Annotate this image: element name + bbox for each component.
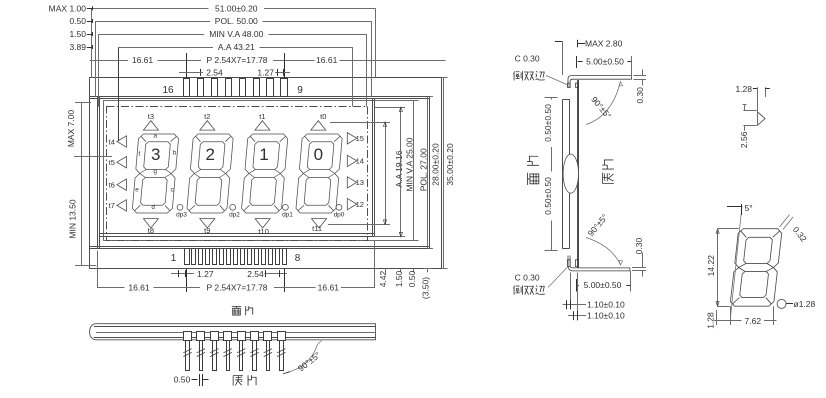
svg-text:e: e bbox=[135, 187, 139, 194]
svg-text:dp2: dp2 bbox=[229, 212, 240, 219]
svg-text:P 2.54X7=17.78: P 2.54X7=17.78 bbox=[206, 55, 267, 65]
svg-text:9: 9 bbox=[297, 85, 303, 96]
svg-text:MAX 7.00: MAX 7.00 bbox=[66, 110, 76, 148]
svg-text:t0: t0 bbox=[320, 112, 326, 121]
svg-text:15: 15 bbox=[356, 134, 364, 143]
annunciator triangle t12 bbox=[347, 198, 356, 209]
svg-text:4.42: 4.42 bbox=[378, 270, 388, 287]
svg-text:16.61: 16.61 bbox=[318, 283, 340, 293]
pin bend angle 90°±5° bottom bbox=[586, 238, 621, 266]
dimension 1.27 and 2.54 bottom bbox=[171, 273, 194, 275]
svg-text:1.10±0.10: 1.10±0.10 bbox=[587, 311, 625, 321]
dimension 1.10±0.10 upper bbox=[570, 273, 572, 310]
svg-text:t5: t5 bbox=[109, 158, 115, 167]
svg-text:t4: t4 bbox=[109, 137, 115, 146]
annunciator triangle t11 bbox=[312, 219, 327, 228]
svg-text:7.62: 7.62 bbox=[745, 316, 762, 326]
annunciator triangle t15 bbox=[347, 133, 356, 144]
pin bend angle 90°±5° top bbox=[586, 82, 621, 125]
dimension MIN V.A 25.00 bbox=[375, 107, 405, 109]
svg-text:1: 1 bbox=[171, 253, 177, 264]
svg-text:16.61: 16.61 bbox=[128, 283, 150, 293]
svg-text:(3.50): (3.50) bbox=[421, 277, 431, 299]
annunciator triangle t1 bbox=[255, 121, 270, 130]
annunciator triangle t13 bbox=[347, 177, 356, 188]
svg-text:12: 12 bbox=[356, 200, 364, 209]
polarizer outline POL 50.00 bbox=[104, 101, 414, 241]
dimension POL. 27.00 bbox=[414, 100, 419, 102]
front glass label 面片 bbox=[232, 307, 241, 316]
svg-text:16.61: 16.61 bbox=[316, 55, 338, 65]
svg-text:28.00±0.20: 28.00±0.20 bbox=[431, 143, 441, 186]
chamfer leader top bbox=[546, 76, 567, 85]
svg-text:POL. 50.00: POL. 50.00 bbox=[215, 16, 258, 26]
bent pins side view bbox=[184, 332, 192, 341]
svg-text:14: 14 bbox=[356, 157, 364, 166]
dimension A.A 43.21 bbox=[118, 47, 120, 141]
svg-text:1.27: 1.27 bbox=[197, 269, 214, 279]
svg-text:C 0.30: C 0.30 bbox=[515, 273, 540, 283]
svg-text:16.61: 16.61 bbox=[132, 55, 154, 65]
svg-text:5°: 5° bbox=[745, 203, 753, 213]
decimal point dp1 bbox=[283, 204, 289, 210]
annunciator triangle t0 bbox=[311, 121, 326, 130]
svg-text:MIN 13.50: MIN 13.50 bbox=[67, 199, 77, 238]
annunciator triangle t4 bbox=[117, 136, 127, 147]
svg-text:MAX 2.80: MAX 2.80 bbox=[585, 38, 623, 48]
svg-text:C 0.30: C 0.30 bbox=[515, 54, 540, 64]
extension line mid bbox=[74, 156, 112, 158]
triangle detail outline bbox=[758, 112, 766, 125]
dimension 5.00±0.50 bottom bbox=[576, 279, 578, 292]
digit detail 7-segment outline bbox=[730, 229, 782, 307]
chamfer marks bottom bbox=[568, 260, 571, 267]
dimension 7.62 digit width bbox=[730, 306, 732, 325]
dimension 2.54 and 1.27 top bbox=[179, 72, 186, 74]
dimension MIN V.A 48.00 bbox=[98, 34, 100, 107]
svg-text:t10: t10 bbox=[258, 227, 268, 236]
svg-text:0: 0 bbox=[314, 145, 323, 164]
back glass label 底片 bbox=[233, 376, 243, 386]
svg-text:13: 13 bbox=[356, 178, 364, 187]
chamfer marks top bbox=[568, 83, 571, 87]
decimal point dp3 bbox=[177, 204, 183, 210]
dimension MAX 2.80 bbox=[555, 41, 562, 43]
top contact teeth 16..9 bbox=[184, 79, 190, 97]
svg-text:1.10±0.10: 1.10±0.10 bbox=[587, 300, 625, 310]
svg-text:0.50: 0.50 bbox=[407, 270, 417, 287]
top bent pin section bbox=[568, 76, 632, 88]
svg-text:a: a bbox=[153, 133, 157, 140]
7-segment digit 3 bbox=[132, 134, 179, 213]
svg-text:MAX 1.00: MAX 1.00 bbox=[49, 3, 87, 13]
svg-text:3.89: 3.89 bbox=[69, 42, 86, 52]
svg-text:t1: t1 bbox=[259, 112, 265, 121]
svg-text:0.30: 0.30 bbox=[635, 87, 645, 104]
dimension 14.22 digit height bbox=[718, 228, 739, 230]
svg-text:0.50±0.50: 0.50±0.50 bbox=[543, 104, 553, 142]
dimension 2.56 triangle height bbox=[743, 104, 747, 106]
svg-text:3: 3 bbox=[151, 145, 160, 164]
bottom offset labels 4.42 / 1.50 / 0.50 / (3.50) bbox=[385, 268, 387, 272]
back glass plate section bbox=[577, 81, 579, 268]
dimension MAX 7.00 bbox=[75, 102, 91, 104]
chamfer leader bottom bbox=[548, 266, 569, 288]
svg-text:ø1.28: ø1.28 bbox=[794, 299, 816, 309]
svg-text:1.27: 1.27 bbox=[257, 67, 274, 77]
viewing area frame double line bbox=[100, 233, 375, 235]
svg-text:0.50: 0.50 bbox=[69, 16, 86, 26]
svg-text:35.00±0.20: 35.00±0.20 bbox=[445, 143, 455, 186]
top glass border double line bbox=[90, 96, 430, 98]
svg-text:dp1: dp1 bbox=[282, 212, 293, 219]
side view glass bar bbox=[90, 324, 376, 340]
svg-text:2.54: 2.54 bbox=[206, 67, 223, 77]
svg-text:t11: t11 bbox=[312, 224, 322, 233]
svg-text:g: g bbox=[153, 168, 157, 175]
front glass plate section bbox=[562, 100, 564, 249]
annunciator triangle t9 bbox=[200, 219, 215, 228]
dimension A.A 19.16 bbox=[330, 122, 390, 124]
dimension 0.30 top right bbox=[634, 75, 647, 77]
decimal point detail ø1.28 bbox=[777, 299, 786, 308]
svg-text:5.00±0.50: 5.00±0.50 bbox=[586, 56, 624, 66]
svg-text:t6: t6 bbox=[109, 181, 115, 190]
svg-text:8: 8 bbox=[295, 253, 301, 264]
decimal point dp0 bbox=[336, 204, 342, 210]
svg-text:1: 1 bbox=[259, 145, 268, 164]
bottom glass outline 51.00 x 35.00 bbox=[90, 78, 442, 269]
7-segment digit 1 bbox=[241, 134, 288, 213]
svg-text:d: d bbox=[151, 204, 155, 211]
dimension 1.28 slant offset bbox=[716, 310, 718, 325]
annunciator triangle t14 bbox=[347, 155, 356, 166]
segment gap 0.32 leader bbox=[780, 215, 790, 228]
annunciator triangle t2 bbox=[200, 121, 215, 130]
svg-text:51.00±0.20: 51.00±0.20 bbox=[215, 3, 258, 13]
svg-text:POL. 27.00: POL. 27.00 bbox=[418, 148, 428, 191]
svg-text:5.00±0.50: 5.00±0.50 bbox=[584, 280, 622, 290]
dimension 0.30 bottom right bbox=[632, 267, 646, 269]
7-segment digit 2 bbox=[187, 134, 234, 213]
annunciator triangle t6 bbox=[117, 179, 127, 190]
dimension row 16.61 / P 2.54X7=17.78 / 16.61 bbox=[90, 60, 128, 62]
slant reference 5° bbox=[731, 206, 743, 317]
annunciator triangle t5 bbox=[117, 157, 127, 168]
dimension 28.00±0.20 bbox=[429, 96, 433, 98]
bottom contact teeth 1..8 bbox=[185, 249, 190, 265]
svg-text:t7: t7 bbox=[109, 201, 115, 210]
svg-text:1.28: 1.28 bbox=[735, 84, 752, 94]
7-segment digit 0 bbox=[296, 134, 343, 213]
svg-text:t9: t9 bbox=[204, 226, 210, 235]
dimension 1.10±0.10 lower bbox=[577, 273, 579, 321]
active area dash-dot border bbox=[107, 107, 368, 241]
dimension row 16.61 / P 2.54X7=17.78 / 16.61 bottom bbox=[97, 251, 99, 288]
svg-text:0.50±0.50: 0.50±0.50 bbox=[543, 177, 553, 215]
dimension 35.00±0.20 bbox=[442, 77, 448, 79]
svg-text:dp0: dp0 bbox=[334, 212, 345, 219]
svg-text:A.A 19.16: A.A 19.16 bbox=[394, 150, 404, 187]
svg-text:2: 2 bbox=[205, 145, 214, 164]
svg-text:1.28: 1.28 bbox=[706, 312, 716, 329]
svg-text:0.50: 0.50 bbox=[174, 375, 191, 385]
annunciator triangle t7 bbox=[117, 200, 127, 211]
svg-text:2.56: 2.56 bbox=[739, 131, 749, 148]
svg-text:0.30: 0.30 bbox=[634, 237, 644, 254]
svg-text:14.22: 14.22 bbox=[706, 255, 716, 277]
svg-text:1.50: 1.50 bbox=[394, 270, 404, 287]
annunciator triangle t10 bbox=[255, 219, 270, 228]
annunciator triangle t8 bbox=[143, 219, 158, 228]
svg-text:P 2.54X7=17.78: P 2.54X7=17.78 bbox=[206, 283, 267, 293]
pin bend angle 90°±5° bbox=[287, 345, 318, 373]
liquid crystal fill ellipse bbox=[563, 154, 578, 193]
svg-text:t8: t8 bbox=[148, 226, 154, 235]
svg-text:MIN V.A 25.00: MIN V.A 25.00 bbox=[404, 137, 414, 191]
svg-text:t3: t3 bbox=[148, 112, 154, 121]
svg-text:2.54: 2.54 bbox=[247, 269, 264, 279]
svg-text:1.50: 1.50 bbox=[69, 29, 86, 39]
dimension 5.00±0.50 top bbox=[576, 56, 578, 68]
bottom bent pin section bbox=[568, 256, 630, 271]
svg-text:f: f bbox=[138, 151, 140, 158]
dimension MIN 13.50 bbox=[81, 157, 83, 265]
dimension 51.00±0.20 bbox=[91, 8, 93, 77]
annunciator triangle t3 bbox=[143, 121, 158, 130]
svg-text:MIN V.A 48.00: MIN V.A 48.00 bbox=[209, 29, 263, 39]
svg-text:b: b bbox=[173, 150, 177, 157]
back glass label section 底片 bbox=[603, 173, 614, 184]
dimension POL. 50.00 bbox=[95, 21, 97, 97]
svg-text:16: 16 bbox=[162, 85, 174, 96]
svg-text:t2: t2 bbox=[204, 112, 210, 121]
front glass label section 面片 bbox=[528, 173, 539, 185]
svg-text:dp3: dp3 bbox=[176, 212, 187, 219]
dimension 0.50±0.50 upper bbox=[545, 97, 558, 99]
svg-text:A.A 43.21: A.A 43.21 bbox=[218, 42, 255, 52]
decimal point dp2 bbox=[230, 204, 236, 210]
